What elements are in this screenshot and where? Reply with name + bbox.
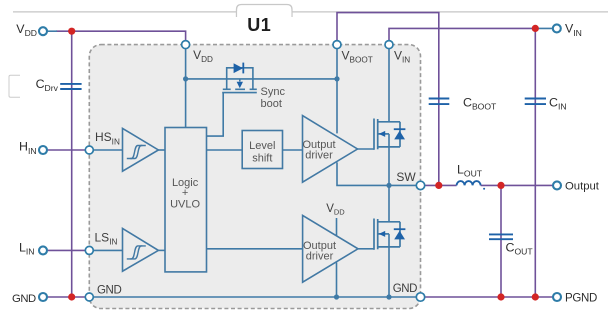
svg-text:U1: U1 xyxy=(247,15,271,35)
svg-text:shift: shift xyxy=(252,153,272,165)
svg-text:Level: Level xyxy=(249,140,275,152)
svg-text:PGND: PGND xyxy=(565,292,597,304)
svg-text:+: + xyxy=(182,187,188,199)
svg-text:driver: driver xyxy=(305,150,333,162)
svg-text:GND: GND xyxy=(12,293,36,305)
svg-text:UVLO: UVLO xyxy=(170,199,200,211)
svg-text:driver: driver xyxy=(306,251,334,263)
svg-text:Sync: Sync xyxy=(261,86,286,98)
svg-text:GND: GND xyxy=(97,285,121,297)
svg-text:SW: SW xyxy=(396,170,416,184)
svg-text:Output: Output xyxy=(565,181,600,193)
svg-text:GND: GND xyxy=(393,283,417,295)
svg-text:boot: boot xyxy=(261,98,282,110)
